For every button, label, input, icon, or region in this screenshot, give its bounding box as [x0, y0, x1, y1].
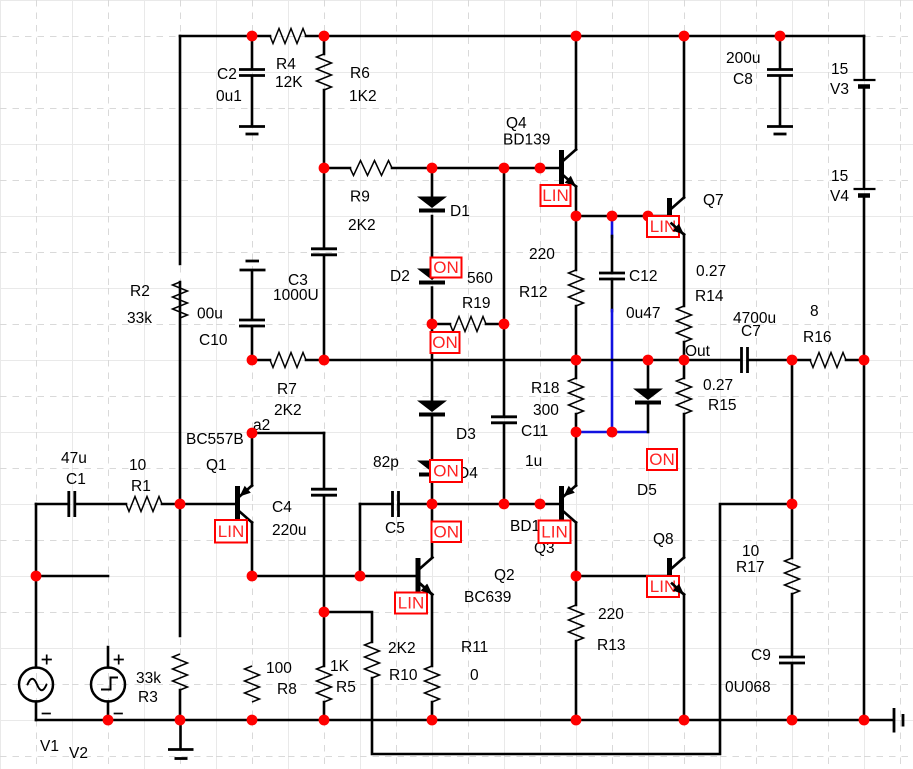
wire C4 column	[323, 433, 326, 612]
svg-text:R3: R3	[138, 689, 158, 706]
capacitor C12 0u47	[599, 268, 660, 322]
wire R19 row	[432, 323, 504, 326]
svg-text:LIN: LIN	[218, 522, 244, 541]
svg-text:2K2: 2K2	[388, 640, 416, 657]
wire Q8 base	[576, 575, 667, 578]
wire C3 branch	[323, 168, 326, 360]
voltage source V3 15V battery	[830, 61, 876, 98]
svg-text:12K: 12K	[275, 74, 303, 91]
capacitor C11 1u	[491, 417, 548, 470]
resistor R19 560	[450, 270, 493, 332]
svg-text:D5: D5	[637, 482, 657, 499]
resistor R9 2K2	[348, 161, 392, 235]
svg-text:15: 15	[831, 61, 848, 78]
svg-text:C9: C9	[751, 647, 771, 664]
svg-text:C7: C7	[741, 323, 761, 340]
svg-text:R6: R6	[350, 65, 370, 82]
transistor Q7 NPN	[667, 192, 724, 235]
wire Q3 emitter	[575, 432, 578, 486]
svg-text:V1: V1	[40, 738, 59, 755]
capacitor C4 220u	[272, 489, 337, 539]
resistor R18 300	[531, 378, 584, 419]
wire C2 branch	[251, 36, 254, 126]
wire node a2 row	[252, 432, 324, 435]
resistor R5 1K	[317, 658, 356, 702]
wire R10 feedback branch	[324, 504, 792, 754]
svg-text:10: 10	[129, 457, 147, 474]
state box LIN for Q2	[395, 593, 427, 614]
ground under C2	[239, 127, 265, 135]
wire input row y=504 left	[36, 503, 180, 506]
diode D1	[417, 197, 470, 221]
transistor Q4 BD139 NPN	[503, 115, 576, 187]
svg-text:BC639: BC639	[464, 589, 511, 606]
capacitor C3 1000U	[273, 249, 337, 304]
voltage source V1 sine	[19, 655, 59, 755]
wire diode chain column	[431, 168, 434, 504]
wire D5 branch	[647, 360, 650, 432]
wire blue row y=432	[576, 431, 648, 434]
resistor R7 2K2	[270, 353, 306, 420]
svg-text:R10: R10	[389, 667, 418, 684]
wire C12 branch upper	[611, 221, 614, 273]
wire R18 column	[575, 360, 578, 432]
resistor R8 100	[245, 660, 297, 702]
svg-text:LIN: LIN	[542, 186, 568, 205]
resistor R15 0.27	[677, 377, 737, 414]
svg-text:10: 10	[742, 543, 760, 560]
wire R14-R15 junction column	[683, 342, 686, 558]
svg-text:0.27: 0.27	[696, 263, 726, 280]
state box ON for Q2 column	[432, 522, 462, 543]
svg-text:ON: ON	[649, 450, 675, 469]
resistor R11 0	[425, 639, 489, 702]
wire Q1 emitter column	[251, 433, 254, 486]
svg-text:82p: 82p	[373, 454, 399, 471]
svg-text:ON: ON	[432, 333, 458, 352]
resistor R3 33k	[136, 654, 188, 706]
svg-text:R18: R18	[531, 380, 559, 397]
wire right edge column	[863, 36, 866, 720]
node label Out	[685, 343, 711, 360]
wire R13 column	[575, 576, 578, 720]
svg-text:33k: 33k	[127, 310, 152, 327]
svg-text:00u: 00u	[197, 306, 223, 323]
svg-text:C11: C11	[521, 423, 548, 440]
svg-text:LIN: LIN	[650, 577, 676, 596]
svg-text:0u1: 0u1	[216, 88, 242, 105]
wire R17 column	[791, 360, 794, 720]
state box LIN for Q7	[647, 216, 679, 237]
wire Q3 collector	[575, 523, 578, 577]
svg-text:C2: C2	[217, 66, 237, 83]
svg-text:R5: R5	[336, 679, 356, 696]
resistor R10 2K2	[365, 640, 418, 684]
transistor Q7 emitter arrow (over box)	[672, 224, 685, 235]
svg-text:R11: R11	[461, 639, 488, 656]
state box LIN for Q1	[215, 520, 247, 543]
svg-text:1000U: 1000U	[273, 287, 319, 304]
svg-text:8: 8	[810, 303, 819, 320]
transistor Q8 NPN	[653, 531, 684, 595]
svg-text:R14: R14	[695, 288, 724, 305]
state box ON for D4	[430, 460, 462, 482]
svg-text:Q1: Q1	[206, 457, 227, 474]
svg-text:R17: R17	[736, 559, 764, 576]
wire out row y=360	[252, 359, 864, 362]
resistor R14 0.27	[677, 263, 727, 342]
svg-text:C4: C4	[272, 499, 292, 516]
wire +V top rail	[180, 35, 864, 38]
wire bottom ground rail	[36, 719, 893, 722]
ground bottom right rotated	[894, 708, 903, 733]
svg-text:R4: R4	[276, 56, 296, 73]
svg-text:BD139: BD139	[503, 132, 550, 149]
wire Q1 base	[180, 503, 235, 506]
resistor R1 10	[126, 457, 162, 512]
svg-text:V2: V2	[69, 745, 88, 762]
wire row y=576 left	[252, 575, 416, 578]
svg-text:0u47: 0u47	[626, 305, 660, 322]
svg-text:220: 220	[529, 246, 555, 263]
svg-text:15: 15	[831, 168, 848, 185]
node label a2	[253, 417, 270, 434]
state box LIN for Q8	[647, 576, 679, 597]
wire Q4 collector	[575, 36, 578, 150]
wire R6 column	[323, 36, 326, 168]
svg-text:LIN: LIN	[398, 594, 424, 613]
capacitor C9 0U068	[725, 647, 805, 696]
svg-text:0: 0	[470, 667, 479, 684]
transistor Q8 emitter arrow (over box)	[672, 584, 684, 595]
svg-text:C12: C12	[629, 268, 657, 285]
svg-text:R9: R9	[350, 189, 370, 206]
svg-text:C5: C5	[385, 520, 405, 537]
wire R12 column	[575, 216, 578, 360]
capacitor C2 0u1	[216, 66, 265, 105]
diode D2	[390, 268, 447, 285]
ground under C8	[767, 127, 793, 135]
wire row y=504 mid	[360, 503, 559, 506]
svg-text:R15: R15	[708, 397, 736, 414]
svg-text:100: 100	[266, 660, 292, 677]
svg-text:LIN: LIN	[650, 217, 676, 236]
wire left input column x=36	[35, 504, 38, 720]
svg-text:47u: 47u	[61, 450, 87, 467]
wire Q7 emitter to R14	[683, 235, 686, 307]
voltage source V4 15V battery	[830, 168, 876, 205]
capacitor C10 00u	[197, 261, 266, 360]
state box ON for D2	[431, 258, 462, 278]
svg-text:C1: C1	[66, 471, 86, 488]
wire V2 top lead	[107, 647, 110, 720]
ground bottom left	[168, 720, 194, 759]
state box LIN for Q4	[541, 185, 571, 206]
state box ON for D5	[647, 449, 677, 470]
wire Q2 collector	[431, 504, 434, 558]
diode D3	[417, 401, 476, 444]
svg-text:V3: V3	[830, 81, 849, 98]
resistor R2 33k	[127, 282, 188, 327]
svg-text:V4: V4	[830, 188, 849, 205]
wire Q4 emitter to node	[575, 187, 578, 217]
svg-text:ON: ON	[433, 462, 459, 481]
svg-text:R2: R2	[130, 283, 150, 300]
diode D4	[417, 461, 478, 483]
transistor Q2 BC639 NPN	[416, 558, 515, 607]
svg-text:R1: R1	[131, 478, 151, 495]
capacitor C1 47u	[61, 450, 87, 517]
transistor Q2 emitter arrow (over box)	[420, 584, 432, 595]
svg-text:R13: R13	[597, 637, 625, 654]
wire row y=216	[576, 215, 667, 218]
wire C12 branch lower	[611, 279, 614, 432]
wire stub y=576	[36, 575, 108, 578]
svg-text:0U068: 0U068	[725, 679, 771, 696]
diode D5	[633, 389, 663, 500]
resistor R4 12K	[252, 29, 324, 92]
resistor R12 220	[519, 246, 584, 306]
svg-text:BC557B: BC557B	[186, 431, 244, 448]
wire Q8 emitter column	[683, 595, 686, 721]
svg-text:200u: 200u	[726, 50, 760, 67]
wire Q1 collector column	[251, 523, 254, 577]
svg-text:0.27: 0.27	[703, 377, 733, 394]
svg-text:Q2: Q2	[494, 567, 515, 584]
svg-text:C10: C10	[199, 332, 228, 349]
svg-text:R7: R7	[277, 381, 297, 398]
svg-text:Q7: Q7	[703, 192, 724, 209]
svg-text:560: 560	[467, 270, 493, 287]
state box ON below R19 node	[431, 332, 460, 353]
svg-text:ON: ON	[433, 258, 459, 277]
resistor R6 1K2	[317, 54, 377, 105]
svg-text:LIN: LIN	[541, 522, 567, 541]
svg-text:220u: 220u	[272, 522, 306, 539]
svg-text:1u: 1u	[525, 453, 542, 470]
svg-text:C8: C8	[733, 71, 753, 88]
wire R5 column	[323, 612, 326, 720]
svg-text:1K: 1K	[330, 658, 350, 675]
svg-text:Q4: Q4	[506, 115, 527, 132]
svg-text:2K2: 2K2	[348, 217, 376, 234]
svg-text:R16: R16	[803, 329, 831, 346]
svg-text:1K2: 1K2	[349, 88, 377, 105]
svg-text:220: 220	[598, 606, 624, 623]
svg-text:D3: D3	[456, 426, 476, 443]
svg-text:Q8: Q8	[653, 531, 674, 548]
svg-text:D2: D2	[390, 268, 410, 285]
wire Q2 emitter to R11	[431, 595, 434, 721]
resistor R17 10	[736, 543, 800, 594]
state box LIN for Q3	[539, 521, 571, 544]
wire C5 down leg	[359, 504, 362, 576]
wire left column x=180	[179, 36, 182, 720]
transistor Q1 BC557B PNP	[186, 431, 252, 523]
svg-text:2K2: 2K2	[274, 402, 302, 419]
capacitor C8 200u	[726, 36, 793, 126]
transistor Q3 BD140 PNP	[510, 486, 576, 558]
wire C11 column	[503, 168, 506, 504]
svg-text:300: 300	[533, 402, 559, 419]
resistor R13 220	[569, 605, 626, 654]
capacitor C5 82p	[373, 454, 405, 537]
resistor R16 8	[803, 303, 846, 368]
voltage source V2 pulse	[69, 655, 125, 762]
capacitor C7 4700u	[733, 310, 776, 373]
wire base row y=168	[324, 167, 559, 170]
svg-text:33k: 33k	[136, 670, 161, 687]
svg-text:D1: D1	[450, 203, 470, 220]
svg-text:Out: Out	[685, 343, 711, 360]
svg-text:R12: R12	[519, 284, 547, 301]
svg-text:ON: ON	[434, 522, 460, 541]
svg-text:R8: R8	[277, 681, 297, 698]
wire Q7 collector column	[683, 36, 686, 198]
svg-text:R19: R19	[462, 295, 490, 312]
